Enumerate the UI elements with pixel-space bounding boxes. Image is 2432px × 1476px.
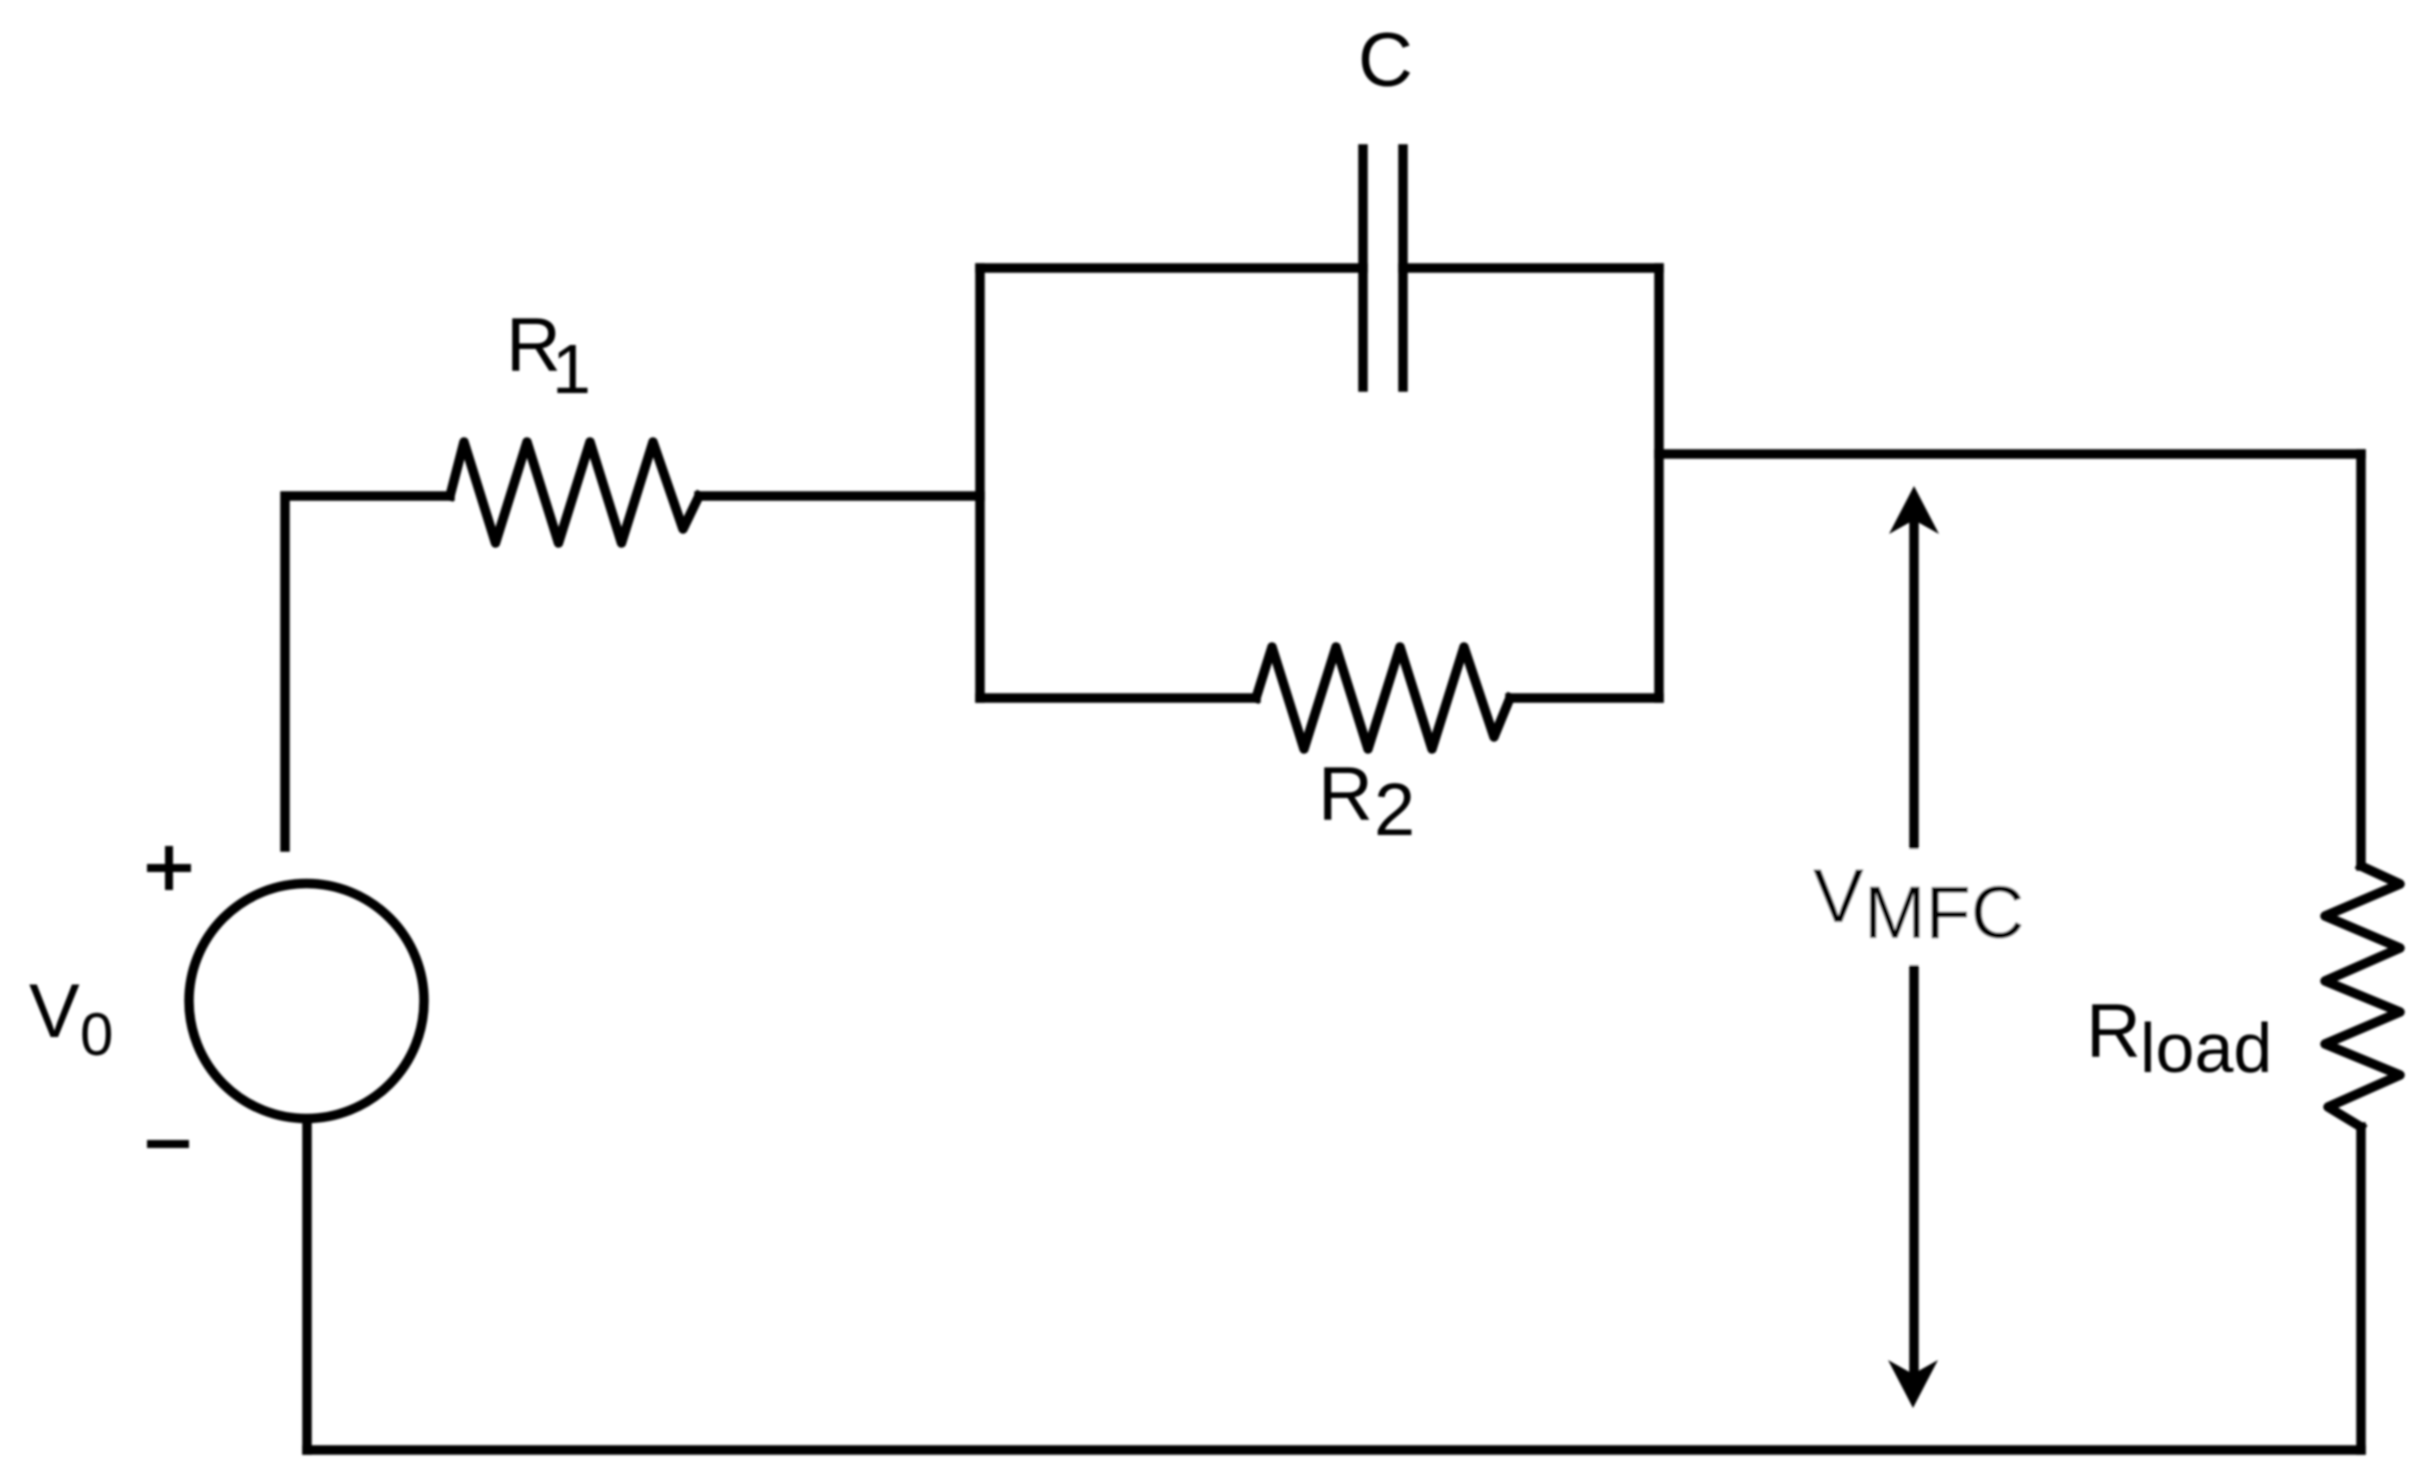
svg-text:0: 0 <box>80 1001 113 1068</box>
svg-text:V: V <box>29 969 80 1054</box>
V_MFC arrowhead bottom <box>1888 1360 1938 1408</box>
label V_MFC with white backing over arrow <box>1806 849 2032 965</box>
V_MFC arrowhead top <box>1889 486 1939 534</box>
svg-text:R: R <box>2086 989 2141 1074</box>
wire R1 to parallel block <box>699 491 980 501</box>
wire: block top side left segment <box>980 263 1363 273</box>
wire: right rail lower <box>2356 1127 2366 1450</box>
wire: output node to right rail <box>1659 449 2361 459</box>
wire input: V0 top stub and wire to R1 <box>285 496 450 847</box>
svg-text:C: C <box>1358 18 1413 103</box>
svg-text:V: V <box>1813 854 1864 939</box>
minus sign of V0 <box>147 1140 189 1148</box>
wire: parallel block left edge <box>975 268 985 698</box>
wire: block top side right segment <box>1403 263 1659 273</box>
resistor Rload <box>2325 866 2400 1127</box>
resistor R2 <box>1256 647 1510 749</box>
capacitor C <box>1363 149 1403 387</box>
plus sign of V0 <box>147 846 191 890</box>
wire: block bottom side left segment <box>980 693 1256 703</box>
svg-text:2: 2 <box>1374 768 1415 851</box>
svg-text:MFC: MFC <box>1864 871 2024 954</box>
wire: right rail upper <box>2356 454 2366 866</box>
svg-text:R: R <box>1318 752 1373 837</box>
wire: bottom rail <box>307 1445 2361 1455</box>
V_MFC arrow shaft lower <box>1909 965 1919 1371</box>
wire: parallel block right edge <box>1654 268 1664 698</box>
V_MFC arrow shaft upper <box>1909 523 1919 849</box>
wire: V0 bottom stub <box>302 1119 312 1450</box>
wire: block bottom side right segment <box>1510 693 1659 703</box>
resistor R1 <box>450 442 699 543</box>
svg-text:load: load <box>2140 1009 2272 1087</box>
voltage source V0 <box>189 884 424 1119</box>
svg-text:1: 1 <box>552 330 591 408</box>
